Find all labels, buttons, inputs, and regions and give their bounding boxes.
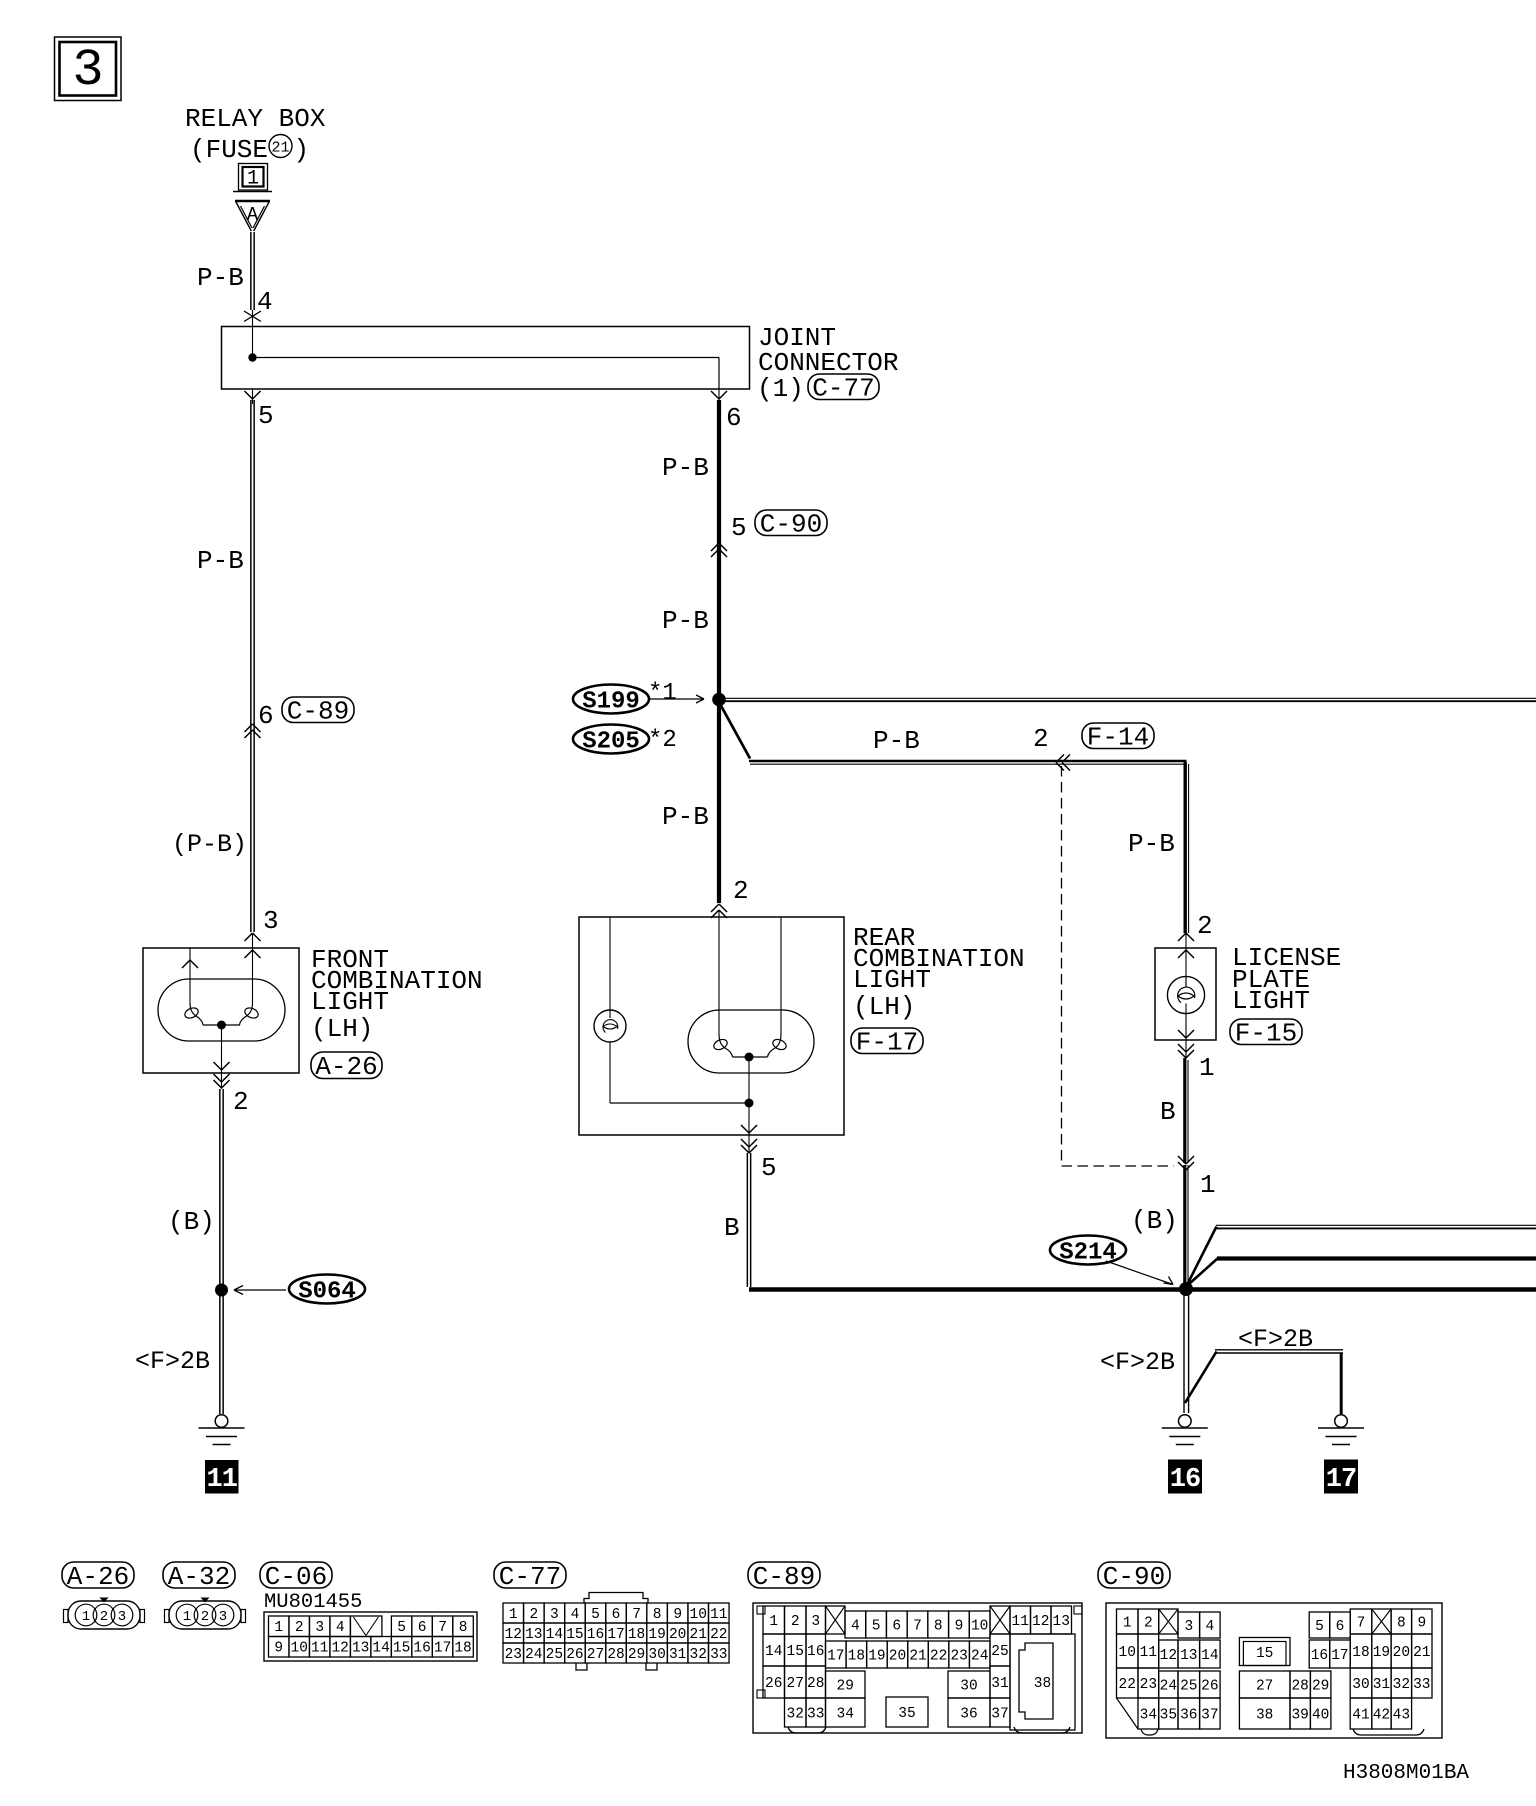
svg-text:5: 5	[1315, 1619, 1324, 1635]
svg-text:10: 10	[971, 1618, 988, 1634]
svg-text:C-06: C-06	[265, 1562, 327, 1592]
svg-text:C-90: C-90	[1103, 1562, 1165, 1592]
svg-text:33: 33	[1413, 1677, 1430, 1693]
svg-text:(1): (1)	[757, 374, 804, 404]
svg-text:C-77: C-77	[812, 374, 874, 404]
label P-B trunk	[662, 453, 709, 483]
svg-text:30: 30	[1352, 1677, 1369, 1693]
connector C-77 pinout	[503, 1593, 729, 1671]
svg-text:21: 21	[909, 1648, 926, 1664]
svg-text:32: 32	[690, 1647, 707, 1663]
svg-text:16: 16	[1311, 1648, 1328, 1664]
svg-text:14: 14	[1201, 1648, 1218, 1664]
svg-text:1: 1	[247, 168, 259, 191]
rear light exit arrow	[741, 1125, 757, 1133]
svg-text:23: 23	[505, 1647, 522, 1663]
svg-text:27: 27	[1256, 1678, 1273, 1694]
svg-text:23: 23	[950, 1648, 967, 1664]
svg-text:41: 41	[1352, 1707, 1369, 1723]
svg-text:31: 31	[991, 1676, 1008, 1692]
svg-text:F-17: F-17	[856, 1028, 918, 1058]
svg-text:A-26: A-26	[315, 1052, 377, 1082]
svg-text:38: 38	[1256, 1707, 1273, 1723]
svg-text:17: 17	[434, 1641, 451, 1657]
svg-text:28: 28	[607, 1647, 624, 1663]
rear light label	[853, 923, 1025, 1022]
wire P-B trunk thick	[717, 400, 721, 903]
ground symbol 16	[1162, 1415, 1208, 1445]
label B rear	[724, 1213, 740, 1243]
drawing number H3808M01BA	[1343, 1762, 1469, 1785]
svg-text:A-26: A-26	[67, 1562, 129, 1592]
svg-text:2: 2	[1144, 1615, 1153, 1631]
splice S064	[215, 1275, 365, 1306]
svg-text:9: 9	[1417, 1615, 1426, 1631]
svg-text:29: 29	[628, 1647, 645, 1663]
pin 5 C-90	[731, 513, 747, 543]
svg-text:5: 5	[872, 1618, 881, 1634]
svg-text:10: 10	[1119, 1645, 1136, 1661]
svg-text:2: 2	[201, 1609, 209, 1625]
svg-text:14: 14	[546, 1627, 563, 1643]
dashed option wire from F-14	[1062, 766, 1175, 1166]
splice S199	[573, 680, 704, 716]
connector C-89 pinout	[753, 1603, 1082, 1733]
svg-text:7: 7	[913, 1618, 922, 1634]
connector ref C-90	[755, 510, 827, 540]
svg-text:1: 1	[1123, 1615, 1132, 1631]
svg-text:11: 11	[311, 1641, 328, 1657]
svg-text:5: 5	[731, 513, 747, 543]
fuse terminal box 1	[233, 164, 272, 192]
svg-text:42: 42	[1373, 1707, 1390, 1723]
svg-text:17: 17	[827, 1648, 844, 1664]
svg-text:P-B: P-B	[662, 606, 709, 636]
svg-text:<F>2B: <F>2B	[135, 1347, 210, 1376]
svg-text:1: 1	[1200, 1170, 1216, 1200]
pin 2 rear	[733, 876, 749, 906]
svg-text:2: 2	[1033, 724, 1049, 754]
svg-text:F-15: F-15	[1235, 1019, 1297, 1049]
F-14 crossing chevrons	[1056, 755, 1070, 771]
svg-text:(LH): (LH)	[853, 992, 915, 1022]
svg-text:29: 29	[837, 1678, 854, 1694]
svg-text:8: 8	[1397, 1615, 1406, 1631]
C-90 crossing chevrons	[711, 543, 727, 557]
svg-text:18: 18	[454, 1641, 471, 1657]
pin 3 arrow	[245, 933, 261, 948]
svg-text:9: 9	[673, 1607, 682, 1623]
svg-text:21: 21	[690, 1627, 707, 1643]
svg-text:C-77: C-77	[499, 1562, 561, 1592]
svg-text:24: 24	[1160, 1678, 1177, 1694]
connector ref C-77	[808, 374, 879, 404]
pin 2 arrow license	[1178, 933, 1194, 948]
svg-text:38: 38	[1034, 1676, 1051, 1692]
svg-text:LIGHT: LIGHT	[853, 965, 931, 995]
svg-text:4: 4	[336, 1620, 345, 1636]
svg-text:12: 12	[1032, 1614, 1049, 1630]
svg-text:34: 34	[1140, 1707, 1157, 1723]
label P-B left	[197, 546, 244, 576]
svg-text:P-B: P-B	[197, 546, 244, 576]
svg-text:2: 2	[100, 1609, 108, 1625]
svg-text:25: 25	[991, 1644, 1008, 1660]
svg-text:7: 7	[632, 1607, 641, 1623]
svg-text:23: 23	[1140, 1677, 1157, 1693]
svg-text:28: 28	[1291, 1678, 1308, 1694]
pin 2 F-14	[1033, 724, 1049, 754]
branch diagonal to ground 17 wire	[1185, 1352, 1217, 1404]
svg-text:7: 7	[1357, 1615, 1366, 1631]
label (F)2B right	[1238, 1325, 1313, 1354]
svg-text:10: 10	[690, 1607, 707, 1623]
pin 1 license	[1199, 1053, 1215, 1083]
svg-text:1: 1	[1199, 1053, 1215, 1083]
svg-text:F-14: F-14	[1087, 723, 1149, 753]
svg-text:4: 4	[571, 1607, 580, 1623]
svg-text:S205: S205	[582, 729, 640, 756]
svg-text:5: 5	[591, 1607, 600, 1623]
branch diagonal from S199	[720, 703, 751, 759]
svg-text:4: 4	[851, 1618, 860, 1634]
svg-text:30: 30	[648, 1647, 665, 1663]
connector ref F-17	[851, 1028, 923, 1058]
connector ref A-26	[311, 1052, 382, 1082]
svg-text:16: 16	[1170, 1465, 1200, 1495]
license plate light label	[1232, 943, 1341, 1016]
svg-text:(FUSE: (FUSE	[190, 135, 268, 165]
svg-text:39: 39	[1291, 1707, 1308, 1723]
label P-B rear	[662, 802, 709, 832]
wire (B) to splice S214	[1185, 1165, 1188, 1286]
svg-text:3: 3	[550, 1607, 559, 1623]
svg-text:25: 25	[1180, 1678, 1197, 1694]
svg-text:31: 31	[1373, 1677, 1390, 1693]
svg-text:8: 8	[653, 1607, 662, 1623]
svg-text:6: 6	[258, 701, 274, 731]
svg-text:26: 26	[1201, 1678, 1218, 1694]
label (B) right	[1131, 1206, 1178, 1236]
svg-text:3: 3	[72, 41, 103, 100]
svg-text:16: 16	[587, 1627, 604, 1643]
svg-text:34: 34	[837, 1706, 854, 1722]
connector A-26 pinout	[64, 1598, 145, 1630]
pin 1 chevrons license	[1178, 1040, 1194, 1058]
svg-text:21: 21	[1413, 1645, 1430, 1661]
svg-text:24: 24	[971, 1648, 988, 1664]
wire (B) to ground	[220, 1089, 223, 1414]
svg-text:16: 16	[807, 1644, 824, 1660]
svg-text:15: 15	[1256, 1646, 1273, 1662]
front light exit arrow	[214, 1062, 230, 1070]
svg-text:15: 15	[566, 1627, 583, 1643]
svg-text:13: 13	[525, 1627, 542, 1643]
svg-text:C-90: C-90	[760, 510, 822, 540]
svg-text:<F>2B: <F>2B	[1100, 1348, 1175, 1377]
svg-text:6: 6	[418, 1620, 427, 1636]
label P-B trunk lower	[662, 606, 709, 636]
svg-text:11: 11	[1012, 1614, 1029, 1630]
svg-text:LIGHT: LIGHT	[1232, 986, 1310, 1016]
svg-text:18: 18	[1352, 1645, 1369, 1661]
svg-text:S214: S214	[1059, 1240, 1117, 1267]
pin 5 chevrons rear	[741, 1135, 757, 1153]
svg-text:19: 19	[868, 1648, 885, 1664]
svg-text:9: 9	[274, 1641, 283, 1657]
svg-text:3: 3	[219, 1609, 227, 1625]
svg-text:A: A	[247, 204, 259, 226]
svg-text:21: 21	[271, 140, 289, 157]
svg-text:1: 1	[183, 1609, 191, 1625]
pin 3	[263, 906, 279, 936]
svg-text:4: 4	[1205, 1619, 1214, 1635]
wire B from license plate light	[1185, 1058, 1188, 1163]
wire P-B left branch	[251, 400, 254, 932]
svg-text:5: 5	[258, 401, 274, 431]
svg-text:15: 15	[393, 1641, 410, 1657]
svg-text:3: 3	[118, 1609, 126, 1625]
svg-text:17: 17	[1326, 1465, 1356, 1495]
svg-text:17: 17	[607, 1627, 624, 1643]
svg-text:3: 3	[811, 1614, 820, 1630]
wire B from rear light	[747, 1153, 750, 1287]
svg-text:P-B: P-B	[197, 263, 244, 293]
bottom ref C-06	[260, 1562, 332, 1592]
svg-text:12: 12	[331, 1641, 348, 1657]
wire (F)2B to ground 16	[1184, 1293, 1189, 1413]
svg-text:*1: *1	[648, 680, 677, 707]
bottom ref C-90	[1098, 1562, 1170, 1592]
svg-text:9: 9	[955, 1618, 964, 1634]
svg-text:P-B: P-B	[1128, 829, 1175, 859]
svg-text:37: 37	[1201, 1707, 1218, 1723]
wires from right edge into S214	[1188, 1225, 1536, 1284]
label (F)2B left	[1100, 1348, 1175, 1377]
svg-text:): )	[294, 135, 310, 165]
ground symbol 11	[199, 1415, 245, 1445]
svg-text:33: 33	[807, 1706, 824, 1722]
front light label	[311, 945, 483, 1044]
pin 2 chevrons	[214, 1074, 230, 1088]
svg-text:7: 7	[438, 1620, 447, 1636]
svg-text:27: 27	[787, 1676, 804, 1692]
front combination light box A-26	[143, 948, 299, 1073]
svg-text:1: 1	[274, 1620, 283, 1636]
svg-text:12: 12	[1160, 1648, 1177, 1664]
svg-text:2: 2	[733, 876, 749, 906]
svg-text:35: 35	[898, 1706, 915, 1722]
pin 2 license	[1197, 911, 1213, 941]
svg-text:26: 26	[765, 1676, 782, 1692]
svg-text:(B): (B)	[1131, 1206, 1178, 1236]
svg-text:40: 40	[1312, 1707, 1329, 1723]
svg-text:29: 29	[1312, 1678, 1329, 1694]
svg-text:1: 1	[509, 1607, 518, 1623]
svg-text:(B): (B)	[168, 1207, 215, 1237]
svg-text:14: 14	[765, 1644, 782, 1660]
svg-text:A-32: A-32	[168, 1562, 230, 1592]
svg-text:20: 20	[889, 1648, 906, 1664]
svg-text:(P-B): (P-B)	[172, 830, 247, 859]
rear combination light box F-17	[579, 910, 844, 1135]
joint connector label	[757, 323, 898, 404]
svg-text:36: 36	[1180, 1707, 1197, 1723]
svg-text:32: 32	[787, 1706, 804, 1722]
label (F)2B	[135, 1347, 210, 1376]
svg-text:P-B: P-B	[662, 802, 709, 832]
joint connector C-77 box	[222, 327, 750, 390]
svg-text:11: 11	[710, 1607, 727, 1623]
svg-text:22: 22	[930, 1648, 947, 1664]
pin 2 chevrons rear	[711, 904, 727, 918]
relay box label (FUSE 21)	[185, 104, 326, 165]
label (P-B)	[172, 830, 247, 859]
bottom ref A-26	[62, 1562, 134, 1592]
connector ref F-14	[1082, 723, 1154, 753]
svg-text:27: 27	[587, 1647, 604, 1663]
rear light dual-filament bulb	[712, 1034, 788, 1135]
svg-text:20: 20	[1393, 1645, 1410, 1661]
svg-text:37: 37	[991, 1706, 1008, 1722]
svg-text:8: 8	[934, 1618, 943, 1634]
svg-text:16: 16	[413, 1641, 430, 1657]
svg-text:6: 6	[726, 403, 742, 433]
ground ref 16	[1168, 1460, 1202, 1495]
svg-text:35: 35	[1160, 1707, 1177, 1723]
svg-text:32: 32	[1393, 1677, 1410, 1693]
svg-text:2: 2	[1197, 911, 1213, 941]
svg-text:6: 6	[612, 1607, 621, 1623]
wire (F)2B to ground 17	[1215, 1350, 1343, 1414]
svg-text:10: 10	[291, 1641, 308, 1657]
svg-text:*2: *2	[648, 727, 677, 754]
svg-text:B: B	[1160, 1097, 1176, 1127]
svg-text:3: 3	[315, 1620, 324, 1636]
label B license	[1160, 1097, 1176, 1127]
svg-text:20: 20	[669, 1627, 686, 1643]
svg-text:5: 5	[761, 1153, 777, 1183]
splice S214	[1050, 1236, 1193, 1297]
svg-text:S064: S064	[298, 1279, 356, 1306]
wire to right edge from S199	[719, 698, 1536, 701]
bottom ref C-89	[748, 1562, 820, 1592]
svg-text:17: 17	[1331, 1648, 1348, 1664]
svg-text:18: 18	[628, 1627, 645, 1643]
label P-B	[197, 263, 244, 293]
connector C-06 pinout MU801455	[264, 1591, 477, 1661]
svg-text:3: 3	[263, 906, 279, 936]
front light dual-filament bulb	[183, 1003, 260, 1089]
svg-text:31: 31	[669, 1647, 686, 1663]
svg-text:11: 11	[1140, 1645, 1157, 1661]
svg-text:6: 6	[892, 1618, 901, 1634]
svg-text:2: 2	[295, 1620, 304, 1636]
svg-text:13: 13	[1180, 1648, 1197, 1664]
svg-text:22: 22	[710, 1627, 727, 1643]
C-89 crossing chevrons	[245, 724, 261, 738]
svg-text:25: 25	[546, 1647, 563, 1663]
label P-B license	[1128, 829, 1175, 859]
junction node S199	[712, 693, 726, 707]
svg-text:43: 43	[1393, 1707, 1410, 1723]
pin 5 rear	[761, 1153, 777, 1183]
pin 5 arrow	[245, 389, 274, 431]
svg-text:S199: S199	[582, 689, 640, 716]
svg-text:28: 28	[807, 1676, 824, 1692]
svg-text:<F>2B: <F>2B	[1238, 1325, 1313, 1354]
svg-text:26: 26	[566, 1647, 583, 1663]
svg-text:6: 6	[1336, 1619, 1345, 1635]
svg-text:C-89: C-89	[753, 1562, 815, 1592]
connector ref F-15	[1230, 1019, 1302, 1049]
ground ref 17	[1324, 1460, 1358, 1495]
wire P-B to F-14	[749, 761, 1187, 764]
ground symbol 17	[1318, 1415, 1364, 1445]
svg-text:36: 36	[960, 1706, 977, 1722]
svg-text:11: 11	[207, 1465, 238, 1495]
svg-text:2: 2	[791, 1614, 800, 1630]
svg-text:H3808M01BA: H3808M01BA	[1343, 1762, 1469, 1785]
power feed triangle A	[235, 201, 270, 231]
wire P-B from fuse	[251, 232, 254, 310]
chevrons at option join	[1178, 1156, 1194, 1170]
label (B)	[168, 1207, 215, 1237]
svg-text:(LH): (LH)	[311, 1014, 373, 1044]
svg-text:24: 24	[525, 1647, 542, 1663]
pin 6 C-89	[258, 701, 274, 731]
svg-text:C-89: C-89	[287, 697, 349, 727]
svg-text:19: 19	[1373, 1645, 1390, 1661]
svg-text:13: 13	[352, 1641, 369, 1657]
splice S205 alternative	[573, 725, 677, 756]
bottom ref A-32	[163, 1562, 235, 1592]
svg-text:B: B	[724, 1213, 740, 1243]
svg-text:14: 14	[372, 1641, 389, 1657]
connector ref C-89	[282, 697, 354, 727]
svg-text:2: 2	[529, 1607, 538, 1623]
svg-text:12: 12	[505, 1627, 522, 1643]
wire B thick horizontal through S214 to right edge	[749, 1287, 1536, 1291]
svg-text:LIGHT: LIGHT	[311, 987, 389, 1017]
wire P-B down to license plate light	[1185, 762, 1188, 933]
pin 6 arrow	[711, 389, 742, 433]
license plate light box F-15	[1155, 948, 1216, 1040]
svg-text:22: 22	[1119, 1677, 1136, 1693]
svg-text:18: 18	[848, 1648, 865, 1664]
svg-text:30: 30	[960, 1678, 977, 1694]
svg-text:RELAY BOX: RELAY BOX	[185, 104, 326, 134]
label P-B to F-14	[873, 726, 920, 756]
svg-text:15: 15	[787, 1644, 804, 1660]
svg-text:1: 1	[769, 1614, 778, 1630]
svg-text:3: 3	[1184, 1619, 1193, 1635]
connector crossing X	[244, 310, 261, 326]
svg-text:2: 2	[233, 1087, 249, 1117]
svg-text:13: 13	[1053, 1614, 1070, 1630]
svg-text:P-B: P-B	[873, 726, 920, 756]
pin 2	[233, 1087, 249, 1117]
svg-text:33: 33	[710, 1647, 727, 1663]
svg-text:MU801455: MU801455	[264, 1591, 362, 1614]
connector C-90 pinout	[1106, 1603, 1442, 1738]
pin 1 lower	[1200, 1170, 1216, 1200]
svg-text:19: 19	[648, 1627, 665, 1643]
bottom ref C-77	[494, 1562, 566, 1592]
page number box 3	[55, 37, 122, 101]
ground ref 11	[205, 1460, 239, 1495]
svg-text:1: 1	[82, 1609, 90, 1625]
